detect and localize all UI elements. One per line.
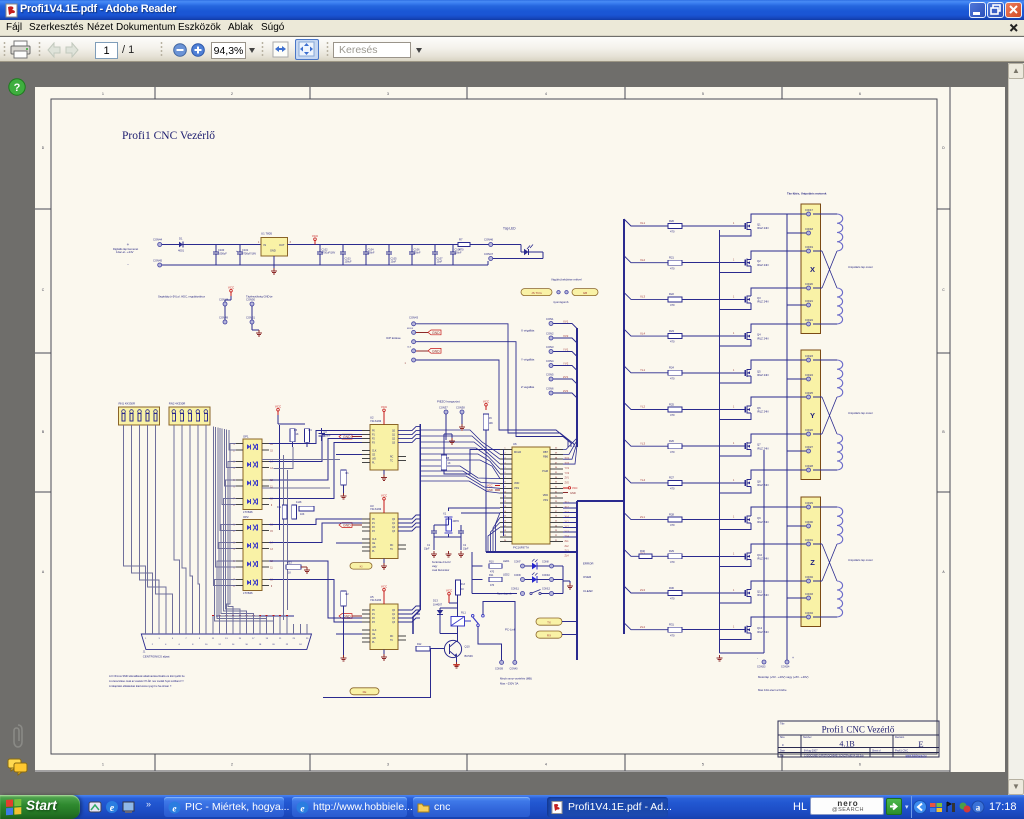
- svg-text:1: 1: [733, 260, 735, 262]
- svg-text:1: 1: [733, 590, 735, 592]
- svg-text:6: 6: [859, 92, 861, 96]
- svg-text:2: 2: [233, 531, 235, 533]
- wire: [787, 450, 806, 452]
- svg-text:Q7: Q7: [757, 443, 761, 447]
- svg-text:8-Aug-2007: 8-Aug-2007: [804, 749, 818, 753]
- ground status: [563, 580, 570, 582]
- ground U5: [383, 650, 385, 655]
- svg-text:2: 2: [231, 92, 233, 96]
- svg-text:R23: R23: [287, 562, 292, 565]
- wire: [682, 629, 743, 631]
- svg-text:16: 16: [245, 644, 248, 646]
- svg-text:CE: CE: [372, 634, 376, 636]
- svg-text:XV1: XV1: [565, 457, 570, 460]
- svg-text:Z végállás: Z végállás: [521, 385, 535, 389]
- svg-text:9: 9: [271, 586, 273, 588]
- svg-text:Size: Size: [780, 736, 785, 739]
- svg-text:7: 7: [185, 638, 187, 640]
- wire: [624, 256, 668, 263]
- svg-text:6: 6: [179, 644, 181, 646]
- wire: [751, 324, 806, 330]
- svg-text:A rálapítást ellátásokat kiad: A rálapítást ellátásokat kiad www.nyugi.…: [109, 684, 172, 688]
- svg-text:10uF: 10uF: [437, 261, 443, 264]
- svg-text:Unipoláris lép.motor: Unipoláris lép.motor: [848, 411, 873, 415]
- wire: [813, 323, 837, 325]
- svg-text:Mech ramz vezérlés (MB): Mech ramz vezérlés (MB): [500, 676, 532, 680]
- svg-text:PIC16F877A: PIC16F877A: [513, 546, 529, 550]
- pin stubs: [236, 541, 243, 543]
- svg-text:1N4007: 1N4007: [433, 603, 443, 607]
- resistor R12: [416, 646, 430, 651]
- svg-text:BC546: BC546: [465, 654, 474, 658]
- inductor coil Z lower: [837, 581, 843, 617]
- svg-text:VCC: VCC: [446, 589, 453, 593]
- svg-text:CON34: CON34: [805, 612, 814, 615]
- svg-text:RC: RC: [390, 457, 394, 459]
- svg-text:OUT: OUT: [279, 243, 285, 247]
- svg-text:23: 23: [292, 638, 295, 640]
- wire output bus: [419, 424, 421, 610]
- wire: [624, 292, 668, 299]
- svg-text:A szerecslése csak az esetek N: A szerecslése csak az esetek NY-ÁK nev c…: [109, 679, 184, 683]
- svg-text:1: 1: [733, 517, 735, 519]
- wire crossover: [822, 397, 837, 434]
- svg-text:1000uF: 1000uF: [218, 251, 227, 255]
- svg-text:A: A: [42, 570, 45, 574]
- svg-text:R21: R21: [669, 256, 674, 260]
- svg-text:CON40: CON40: [510, 668, 519, 671]
- svg-text:LTV846: LTV846: [243, 591, 253, 595]
- svg-text:5: 5: [702, 763, 704, 767]
- svg-text:VCC: VCC: [572, 486, 578, 490]
- ground tag U2: [352, 436, 362, 438]
- svg-text:D1: D1: [179, 237, 183, 241]
- svg-text:15: 15: [239, 638, 242, 640]
- resistor R23: [286, 565, 301, 570]
- svg-text:TC: TC: [390, 640, 393, 642]
- svg-text:CON37: CON37: [439, 406, 448, 410]
- svg-text:vagy: vagy: [432, 565, 438, 568]
- svg-text:IRLZ 24N: IRLZ 24N: [757, 263, 769, 267]
- opto element OP2.2: [247, 543, 251, 548]
- power node VCC R9: [485, 406, 487, 410]
- svg-text:21: 21: [279, 638, 282, 640]
- svg-text:C100: C100: [218, 248, 225, 252]
- svg-text:nyomógomb: nyomógomb: [553, 300, 569, 304]
- wire harness opto inputs: [226, 444, 236, 616]
- wire thick bus 2: [485, 434, 487, 552]
- svg-text:X végállás: X végállás: [521, 329, 535, 333]
- wire: [751, 214, 806, 220]
- svg-text:GND: GND: [270, 249, 276, 253]
- svg-text:RL1: RL1: [461, 611, 466, 615]
- svg-text:Táp LED: Táp LED: [503, 227, 516, 231]
- svg-text:XL3: XL3: [640, 295, 646, 299]
- svg-text:CON7: CON7: [514, 561, 521, 564]
- svg-text:R27: R27: [669, 476, 674, 480]
- svg-text:CENTRONICS aljzat: CENTRONICS aljzat: [143, 655, 170, 659]
- wire: [448, 534, 450, 537]
- svg-text:470: 470: [490, 584, 495, 587]
- resistor R4: [305, 429, 310, 443]
- resistor R1: [341, 470, 347, 485]
- connector CON34: [785, 660, 789, 664]
- wire: [277, 415, 279, 424]
- wire relay contact out: [483, 602, 515, 660]
- wire: [813, 543, 822, 545]
- svg-text:4: 4: [233, 468, 235, 470]
- svg-text:Segédtáp (+5V) pl. HDC, regulá: Segédtáp (+5V) pl. HDC, regulátorához: [158, 295, 206, 299]
- svg-text:6: 6: [233, 487, 235, 489]
- connector CON39: [500, 660, 504, 664]
- wire: [553, 393, 577, 398]
- svg-text:csak Rezonátor: csak Rezonátor: [432, 569, 450, 572]
- svg-text:CON20: CON20: [805, 283, 814, 286]
- inductor coil Y lower: [837, 434, 843, 470]
- svg-text:IRLZ 24N: IRLZ 24N: [757, 483, 769, 487]
- svg-text:12ac-el...+24V: 12ac-el...+24V: [116, 250, 134, 254]
- svg-text:470: 470: [670, 633, 675, 637]
- wire: [682, 335, 743, 337]
- svg-text:PIEZO hangszóró: PIEZO hangszóró: [437, 400, 460, 404]
- svg-text:R1: R1: [346, 472, 350, 475]
- wire: [562, 621, 577, 623]
- svg-text:XL4: XL4: [640, 331, 646, 335]
- svg-text:Max ~230V 3A: Max ~230V 3A: [500, 682, 519, 686]
- svg-text:470: 470: [670, 376, 675, 380]
- ground X1: [448, 551, 450, 554]
- svg-text:Profi1 CNC Vezérlő: Profi1 CNC Vezérlő: [822, 725, 895, 735]
- svg-text:R3: R3: [294, 429, 298, 432]
- wire: [553, 324, 577, 329]
- svg-text:R30: R30: [669, 586, 674, 590]
- svg-text:KI: KI: [360, 564, 363, 568]
- wire: [751, 434, 806, 440]
- wire: [478, 627, 502, 661]
- svg-text:1: 1: [405, 362, 407, 365]
- svg-text:ZL1: ZL1: [640, 515, 645, 519]
- svg-text:CON9: CON9: [514, 574, 521, 577]
- wire: [751, 470, 806, 477]
- sheet outer border bottom: [35, 770, 950, 772]
- wire U3 pins: [362, 518, 370, 520]
- wire: [624, 586, 668, 593]
- wire vertical opto-out2: [283, 455, 285, 620]
- svg-text:10K: 10K: [489, 422, 494, 425]
- svg-text:1: 1: [733, 443, 735, 445]
- svg-text:1: 1: [733, 333, 735, 335]
- ground U3: [383, 559, 385, 564]
- svg-text:9: 9: [199, 638, 201, 640]
- svg-text:Q10: Q10: [465, 645, 471, 649]
- svg-text:ERROR: ERROR: [583, 562, 593, 566]
- svg-text:RC: RC: [390, 636, 394, 638]
- wire: [813, 213, 837, 215]
- svg-text:Z: Z: [810, 558, 815, 567]
- wire: [336, 542, 362, 544]
- svg-text:IRLZ 24N: IRLZ 24N: [757, 336, 769, 340]
- svg-text:CON28: CON28: [805, 465, 814, 468]
- svg-text:1K: 1K: [288, 572, 291, 575]
- svg-text:CON45: CON45: [153, 259, 162, 263]
- svg-text:10: 10: [205, 644, 208, 646]
- wire: [624, 403, 668, 410]
- svg-text:13: 13: [225, 638, 228, 640]
- ground tag U5: [352, 615, 362, 617]
- svg-text:U/D: U/D: [372, 638, 376, 640]
- netlabel FE: [350, 688, 379, 695]
- wire: [416, 324, 574, 447]
- svg-text:14: 14: [232, 644, 235, 646]
- svg-text:R4: R4: [309, 429, 313, 432]
- LED LED2: [525, 579, 532, 581]
- svg-text:CON8: CON8: [542, 561, 549, 564]
- wire: [787, 597, 806, 599]
- svg-text:X: X: [810, 265, 815, 274]
- svg-text:a: a: [976, 803, 981, 813]
- wire fan to output bus: [563, 502, 577, 504]
- svg-text:VSS: VSS: [543, 499, 548, 502]
- svg-text:8: 8: [192, 644, 194, 646]
- wire motor supply: [786, 214, 788, 660]
- svg-text:VCC: VCC: [381, 405, 388, 409]
- resistor R5: [282, 505, 287, 519]
- opto element OP2.3: [247, 562, 251, 567]
- svg-text:GND: GND: [343, 524, 351, 528]
- svg-text:-: -: [757, 656, 759, 660]
- svg-text:CON17: CON17: [805, 209, 814, 212]
- svg-text:Profi1 CNC Vezérlő: Profi1 CNC Vezérlő: [122, 130, 215, 142]
- sheet border frame: [51, 99, 937, 754]
- svg-text:R9: R9: [489, 417, 493, 420]
- svg-text:VCC: VCC: [381, 585, 388, 589]
- wire: [682, 592, 743, 594]
- capacitor C101: [239, 245, 241, 252]
- wire U2 pins: [362, 430, 370, 432]
- svg-text:18: 18: [259, 644, 262, 646]
- wire pin column: [503, 450, 505, 537]
- svg-text:4: 4: [545, 763, 547, 767]
- svg-text:1: 1: [733, 553, 735, 555]
- svg-text:XL2: XL2: [640, 258, 646, 262]
- svg-text:Profi1 CNC: Profi1 CNC: [895, 749, 908, 753]
- wire: [554, 579, 563, 581]
- svg-text:U/D: U/D: [372, 547, 376, 549]
- svg-text:U/D: U/D: [372, 459, 376, 461]
- power node VCC relay: [448, 595, 450, 599]
- svg-text:Title: Title: [780, 723, 785, 726]
- wire: [430, 648, 444, 650]
- svg-text:9: 9: [271, 505, 273, 507]
- svg-text:CON49: CON49: [219, 316, 228, 320]
- wire: [813, 469, 837, 471]
- ground MCLR: [451, 438, 453, 441]
- svg-text:470: 470: [670, 266, 675, 270]
- wire: [624, 366, 668, 373]
- svg-text:+: +: [127, 242, 130, 247]
- ground motor: [719, 655, 721, 658]
- svg-text:3: 3: [158, 638, 160, 640]
- svg-text:R11: R11: [489, 574, 494, 577]
- svg-text:100nF: 100nF: [414, 252, 422, 255]
- wire: [813, 396, 822, 398]
- ground R23: [301, 566, 307, 568]
- svg-text:470: 470: [459, 248, 464, 252]
- wire crossover: [822, 251, 837, 288]
- svg-text:YV2: YV2: [565, 472, 570, 475]
- resistor R8: [441, 455, 447, 470]
- pin stubs: [236, 578, 243, 580]
- svg-text:LED1: LED1: [503, 559, 510, 563]
- svg-text:CE: CE: [372, 455, 376, 457]
- LED D2 Táp: [493, 244, 521, 246]
- svg-text:IRLZ 24N: IRLZ 24N: [757, 520, 769, 524]
- svg-text:R8: R8: [446, 457, 450, 460]
- svg-text:Q10: Q10: [757, 553, 763, 557]
- pad J2: [557, 291, 560, 294]
- svg-text:XV2: XV2: [563, 334, 569, 338]
- wire: [487, 261, 489, 265]
- svg-text:CON43: CON43: [409, 316, 418, 320]
- svg-text:VCC: VCC: [275, 405, 282, 409]
- svg-text:Kerámia+C1+C2: Kerámia+C1+C2: [432, 561, 451, 564]
- svg-text:6: 6: [859, 763, 861, 767]
- wire harness opto to counters: [269, 431, 362, 444]
- svg-text:CON29: CON29: [805, 502, 814, 505]
- svg-text:CLK: CLK: [372, 539, 377, 541]
- wire: [471, 552, 473, 594]
- wire vertical opto-out: [279, 425, 281, 530]
- wire: [751, 360, 806, 367]
- svg-text:CLK: CLK: [407, 347, 412, 349]
- svg-text:CON22: CON22: [805, 319, 814, 322]
- svg-text:1: 1: [145, 638, 147, 640]
- svg-text:4148: 4148: [296, 501, 302, 504]
- svg-text:2: 2: [152, 644, 154, 646]
- svg-text:Unipoláris lép.motor: Unipoláris lép.motor: [848, 558, 873, 562]
- svg-text:CON38: CON38: [456, 406, 465, 410]
- svg-text:B: B: [942, 430, 945, 434]
- svg-text:OP2: OP2: [243, 515, 249, 519]
- svg-text:Nyomógomb: Nyomógomb: [497, 592, 512, 596]
- svg-text:D: D: [42, 146, 45, 150]
- wire: [184, 244, 262, 246]
- ground piezo: [461, 414, 463, 424]
- svg-text:1: 1: [102, 763, 104, 767]
- svg-text:IN: IN: [264, 243, 267, 247]
- svg-text:IRLZ 24N: IRLZ 24N: [757, 446, 769, 450]
- svg-text:R22: R22: [669, 292, 674, 296]
- svg-text:11: 11: [212, 638, 215, 640]
- wire: [444, 450, 500, 475]
- svg-text:VSS: VSS: [514, 487, 519, 490]
- svg-text:74LS193: 74LS193: [370, 598, 382, 602]
- wire ground pins bracket: [216, 615, 294, 617]
- svg-text:CON4: CON4: [546, 359, 554, 363]
- svg-text:A 0 Ohmos SMD ellenállások alk: A 0 Ohmos SMD ellenállások alkalmazása R…: [109, 674, 185, 678]
- svg-text:470: 470: [670, 523, 675, 527]
- svg-text:VCC: VCC: [487, 483, 493, 487]
- svg-text:IRLZ 24N: IRLZ 24N: [757, 300, 769, 304]
- power node VCC U3: [383, 500, 385, 504]
- resistor R13: [456, 580, 461, 595]
- wire: [682, 262, 743, 264]
- wire: [682, 409, 743, 411]
- netlabel GB: [572, 289, 598, 296]
- svg-text:1K: 1K: [448, 462, 451, 465]
- svg-text:VCC: VCC: [483, 400, 490, 404]
- svg-text:-: -: [127, 262, 129, 267]
- wire: [682, 298, 743, 300]
- svg-text:470: 470: [670, 487, 675, 491]
- wire: [787, 304, 806, 306]
- svg-text:ZL2: ZL2: [565, 545, 570, 548]
- wire: [624, 219, 668, 226]
- svg-text:OP1: OP1: [243, 434, 249, 438]
- svg-text:CON33: CON33: [805, 593, 814, 596]
- wire main bus: [623, 219, 625, 634]
- svg-text:19: 19: [266, 638, 269, 640]
- svg-text:YL3: YL3: [640, 441, 646, 445]
- ground R1: [343, 485, 345, 493]
- svg-text:YV1: YV1: [563, 347, 569, 351]
- svg-text:1: 1: [733, 296, 735, 298]
- svg-text:R28: R28: [669, 512, 674, 516]
- svg-text:3: 3: [387, 92, 389, 96]
- transistor Q10: [444, 640, 461, 657]
- svg-text:1: 1: [733, 370, 735, 372]
- svg-text:ZV1: ZV1: [565, 477, 570, 480]
- ground under U1: [273, 256, 275, 268]
- svg-text:4.1B: 4.1B: [839, 739, 854, 748]
- wire: [682, 482, 743, 484]
- svg-text:VCC: VCC: [228, 286, 235, 290]
- svg-text:R7: R7: [459, 238, 463, 242]
- svg-text:Q9: Q9: [757, 516, 761, 520]
- svg-text:U6: U6: [513, 442, 517, 446]
- svg-text:CON3: CON3: [546, 345, 554, 349]
- svg-text:17: 17: [252, 638, 255, 640]
- svg-text:CON33: CON33: [757, 666, 766, 669]
- wire: [813, 616, 837, 618]
- svg-text:Q4: Q4: [757, 333, 761, 337]
- svg-text:ZL4: ZL4: [565, 555, 570, 558]
- title block frame: [778, 721, 939, 757]
- svg-text:TX: TX: [547, 620, 551, 624]
- svg-text:Date: Date: [780, 750, 786, 753]
- capacitor bank C102-C108: [319, 245, 321, 252]
- svg-text:8: 8: [233, 586, 235, 588]
- svg-text:Motortáp (+5V...+40V) vagy (+8: Motortáp (+5V...+40V) vagy (+8V...+40V): [758, 675, 809, 679]
- wire: [682, 445, 743, 447]
- svg-text:YV1: YV1: [565, 467, 570, 470]
- svg-text:1: 1: [733, 223, 735, 225]
- ground PIC: [563, 492, 568, 494]
- svg-text:CON23: CON23: [805, 355, 814, 358]
- frame row coordinates: [35, 208, 51, 210]
- wire: [553, 379, 577, 384]
- resistor R3: [290, 429, 295, 442]
- wire: [262, 459, 340, 461]
- wire: [624, 549, 668, 556]
- wire: [336, 633, 362, 635]
- wire: [456, 641, 458, 643]
- inductor coil X lower: [837, 288, 843, 324]
- ground tag ICP 2: [416, 350, 428, 352]
- svg-text:2: 2: [233, 450, 235, 452]
- wire: [624, 513, 668, 520]
- svg-text:10uF: 10uF: [391, 261, 397, 264]
